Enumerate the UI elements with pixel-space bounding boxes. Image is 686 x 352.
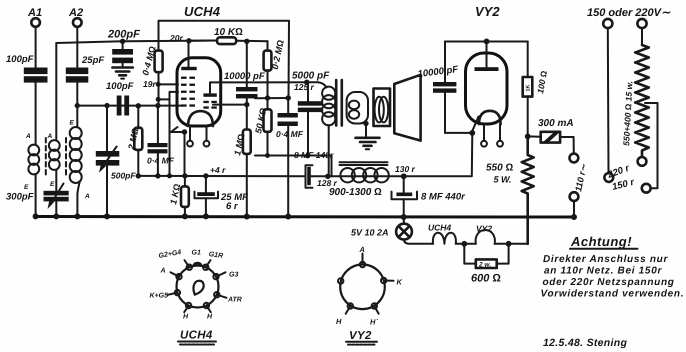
wire grid line y105 xyxy=(77,105,183,107)
wire stub to tube g2 xyxy=(158,83,178,85)
capacitor 8MF 440V electrolytic xyxy=(392,176,467,216)
heater UCH4 xyxy=(428,223,456,244)
socket VY2 circle xyxy=(340,265,385,310)
wire y176 choke to VY2 cathode riser xyxy=(328,133,473,176)
node grid stub 2 xyxy=(156,97,161,102)
wire A2 vertical xyxy=(76,27,78,68)
svg-text:20r: 20r xyxy=(169,33,183,43)
svg-text:A2: A2 xyxy=(68,7,83,19)
ground bus xyxy=(36,215,574,219)
tube UCH4 triode anode xyxy=(203,82,216,96)
svg-text:5000 pF: 5000 pF xyxy=(292,71,330,82)
node 100pF right / 2Mohm top xyxy=(136,103,141,108)
svg-text:A: A xyxy=(160,268,166,275)
capacitor 5000pF xyxy=(292,71,330,159)
resistor 50kohm xyxy=(253,98,271,134)
terminal A1 xyxy=(27,7,42,27)
svg-text:oder 220r Netzspannung: oder 220r Netzspannung xyxy=(543,277,675,288)
node 2Mohm bottom xyxy=(136,173,141,178)
svg-text:150 oder 220V∼: 150 oder 220V∼ xyxy=(587,7,671,19)
node k on AVC line xyxy=(182,173,187,178)
node 600ohm right xyxy=(506,241,512,247)
mains terminal left xyxy=(603,19,613,182)
tube VY2 heater pins xyxy=(481,124,503,147)
node VY2 cathode xyxy=(469,130,475,136)
speaker coil secondary xyxy=(347,92,368,124)
wire coil L2 to variable cap xyxy=(55,170,57,191)
tap wire 150V xyxy=(645,103,658,188)
node grid stub 1 xyxy=(156,82,161,87)
svg-text:+4 r: +4 r xyxy=(210,165,226,175)
node cathode k xyxy=(182,129,187,134)
tube VY2 cathode lead xyxy=(472,117,478,132)
tube UCH4 envelope xyxy=(177,58,221,126)
svg-text:K: K xyxy=(397,278,403,287)
node 20V xyxy=(186,38,191,43)
label socket VY2 xyxy=(346,330,377,345)
svg-text:A: A xyxy=(84,193,90,200)
svg-text:E: E xyxy=(50,181,55,188)
wire coil L3 to bus xyxy=(77,181,80,217)
variable capacitor 300pF xyxy=(6,184,69,210)
resistor 1Mohm xyxy=(232,105,251,157)
svg-text:10000 pF: 10000 pF xyxy=(224,71,265,82)
svg-text:100pF: 100pF xyxy=(106,81,134,92)
wire y98 xyxy=(255,97,289,99)
svg-text:Achtung!: Achtung! xyxy=(570,234,632,249)
svg-text:1K: 1K xyxy=(526,84,532,91)
tap terminal 150V xyxy=(611,177,651,193)
wire stub y99 xyxy=(158,98,169,100)
coil L2 xyxy=(47,133,60,188)
svg-text:A: A xyxy=(25,133,31,140)
wire 1Mohm to bus xyxy=(246,154,248,217)
wire 500pF to bus xyxy=(106,166,108,217)
wire top-left horizontal (y41) xyxy=(56,41,217,44)
transformer core xyxy=(336,80,342,126)
wire VY2 anode rail y41 xyxy=(445,41,528,43)
wire AVC/B+ line y176 xyxy=(138,175,305,177)
label socket UCH4 xyxy=(178,330,216,345)
svg-text:A: A xyxy=(47,133,53,140)
svg-text:A: A xyxy=(359,245,365,254)
capacitor 0.4MF cathode xyxy=(147,106,175,176)
tube VY2 anode xyxy=(475,42,499,72)
node 50k on y155 xyxy=(265,153,270,158)
capacitor 100pF (A1) xyxy=(6,54,48,83)
wire A2 to node xyxy=(76,83,78,106)
wire k-node down xyxy=(184,132,186,176)
node 50k top xyxy=(265,95,270,100)
node transformer primary bottom xyxy=(325,174,330,179)
svg-text:550 Ω: 550 Ω xyxy=(486,163,513,174)
resistor 600ohm 2W xyxy=(464,244,508,285)
wire A2 node to coil L3 xyxy=(76,106,78,127)
svg-text:G3: G3 xyxy=(229,272,238,279)
wire from y41 corner down to coil L2 xyxy=(55,43,57,139)
svg-text:5V 10 2A: 5V 10 2A xyxy=(351,228,389,238)
svg-text:300pF: 300pF xyxy=(6,192,34,203)
wire 0.2Mohm to node y98 xyxy=(267,71,269,98)
capacitor 200pF xyxy=(107,29,140,64)
svg-text:A1: A1 xyxy=(27,7,42,19)
wire 0.4Mohm bottom to grid line xyxy=(158,72,160,105)
wire 2Mohm to AVC line xyxy=(137,150,139,176)
resistor 550ohm 5W xyxy=(486,136,534,243)
svg-text:UCH4: UCH4 xyxy=(184,4,221,19)
svg-text:900-1300 Ω: 900-1300 Ω xyxy=(329,187,382,198)
capacitor 25MF electrolytic xyxy=(195,173,249,216)
capacitor 100pF series xyxy=(106,81,134,116)
wire g3 return L xyxy=(170,92,179,176)
svg-text:600 Ω: 600 Ω xyxy=(471,273,501,285)
wire A1 to coil xyxy=(35,83,37,145)
transformer primary coil xyxy=(318,82,335,176)
tap terminal 220V xyxy=(605,157,646,181)
socket VY2 pin labels xyxy=(336,245,403,327)
resistor 10kohm xyxy=(189,27,268,44)
heater wire to node xyxy=(456,243,476,245)
node choke right xyxy=(401,173,407,179)
mains terminal right xyxy=(637,19,646,45)
svg-text:25pF: 25pF xyxy=(81,55,104,66)
ground under 200pF xyxy=(112,63,132,78)
heater wire lamp to UCH4 xyxy=(404,240,433,244)
node triode grid xyxy=(244,102,249,107)
svg-text:130 r: 130 r xyxy=(395,164,416,174)
fuse 300mA xyxy=(528,118,574,143)
resistor 0.4Mohm xyxy=(140,45,162,77)
capacitor 10000pF (VY2) xyxy=(417,42,472,133)
wire triode grid y104.6 xyxy=(213,104,247,106)
socket UCH4 pins xyxy=(168,260,227,312)
node g3 return bottom xyxy=(167,173,172,178)
wire y155 xyxy=(255,156,332,177)
resistor 0.2Mohm xyxy=(264,39,286,71)
wire triode anode out (y82) xyxy=(210,81,318,83)
plug terminal 110V upper xyxy=(570,137,579,162)
svg-text:G1: G1 xyxy=(192,250,201,257)
tube VY2 envelope xyxy=(466,53,508,124)
svg-text:2 w.: 2 w. xyxy=(478,262,491,269)
field choke coil xyxy=(329,162,389,198)
svg-text:VY2: VY2 xyxy=(349,330,372,342)
wire coil L1 to bus xyxy=(35,174,37,217)
wire 500pF vertical xyxy=(106,106,108,151)
capacitor 8MF 140V electrolytic xyxy=(294,150,334,188)
heater wire VY2 to corner xyxy=(495,243,528,245)
core dashed line 2 xyxy=(65,138,67,178)
speaker cone xyxy=(394,75,420,141)
svg-text:125 r: 125 r xyxy=(294,82,315,92)
svg-text:0·4 MF: 0·4 MF xyxy=(147,156,175,166)
svg-text:an 110r Netz. Bei 150r: an 110r Netz. Bei 150r xyxy=(544,266,662,277)
plug terminal 110V lower xyxy=(570,192,579,217)
resistor 550+400ohm dropper xyxy=(621,45,649,157)
tube UCH4 heater pins xyxy=(187,126,209,147)
svg-text:H`: H` xyxy=(370,318,378,327)
node 600ohm left xyxy=(461,241,467,247)
wire 300pF to bus xyxy=(55,202,57,217)
top rail xyxy=(159,21,290,98)
core dashed line 1 xyxy=(45,138,47,178)
node 0.4MF top xyxy=(286,95,291,100)
tube UCH4 triode grid dashes xyxy=(203,101,216,109)
terminal A2 xyxy=(68,7,83,27)
coil L1 antenna xyxy=(24,133,39,191)
wire 0.4MF to bus xyxy=(287,126,289,217)
node fuse junction xyxy=(525,134,531,140)
node 500pF top xyxy=(104,103,109,108)
capacitor 0.4MF screen xyxy=(276,98,304,139)
svg-text:Vorwiderstand verwenden.: Vorwiderstand verwenden. xyxy=(541,289,685,300)
socket UCH4 pin labels xyxy=(150,249,242,320)
ground symbol speaker xyxy=(356,124,380,150)
svg-text:5 W.: 5 W. xyxy=(494,175,512,185)
resistor 100ohm boxed xyxy=(523,42,549,97)
svg-text:300 mA: 300 mA xyxy=(538,118,574,129)
wire A1 vertical xyxy=(35,27,37,68)
tube UCH4 grid dashes xyxy=(181,77,195,107)
heater VY2 xyxy=(476,224,495,244)
pilot lamp 5V 0.2A xyxy=(351,217,412,240)
svg-text:100pF: 100pF xyxy=(6,54,34,65)
wire cathode to k-node xyxy=(171,127,185,132)
svg-text:0·4 MF: 0·4 MF xyxy=(276,129,304,139)
resistor 2Mohm xyxy=(126,106,142,152)
socket UCH4 circle xyxy=(177,263,219,307)
label Achtung heading xyxy=(570,234,638,249)
capacitor 25pF (A2) xyxy=(66,55,105,83)
variable capacitor 500pF xyxy=(96,147,137,181)
svg-text:UCH4: UCH4 xyxy=(428,223,451,233)
tube UCH4 hexode anode xyxy=(181,41,196,70)
coil L3 (E) xyxy=(70,120,91,201)
speaker driver frame xyxy=(374,89,391,127)
svg-text:ATR: ATR xyxy=(227,297,242,304)
svg-text:Direkter Anschluss nur: Direkter Anschluss nur xyxy=(543,254,668,265)
socket UCH4 key xyxy=(193,281,203,295)
tube VY2 cathode dome xyxy=(479,111,501,124)
node 10000pF top xyxy=(244,39,249,44)
svg-text:E: E xyxy=(24,184,29,191)
node speaker ground xyxy=(363,121,368,126)
node VY2 anode xyxy=(484,39,490,45)
capacitor 10000pF xyxy=(224,41,265,104)
svg-text:19r: 19r xyxy=(143,79,156,89)
node 0.4MF cathode bottom xyxy=(155,173,160,178)
wire 100ohm to fuse node xyxy=(527,97,529,137)
svg-text:8 MF 440r: 8 MF 440r xyxy=(421,192,466,203)
node 0.4Mohm grid line xyxy=(155,103,160,108)
svg-text:VY2: VY2 xyxy=(475,4,500,19)
note text block xyxy=(541,254,685,300)
svg-text:E: E xyxy=(70,120,75,127)
resistor 1kohm xyxy=(168,176,189,217)
svg-text:H: H xyxy=(336,317,342,326)
svg-text:200pF: 200pF xyxy=(107,29,140,41)
tube UCH4 cathode dome xyxy=(188,111,213,126)
socket VY2 pins xyxy=(338,254,394,314)
svg-text:500pF: 500pF xyxy=(111,171,136,181)
svg-text:UCH4: UCH4 xyxy=(180,330,213,342)
bus node dots xyxy=(33,213,577,220)
svg-text:6 r: 6 r xyxy=(226,201,239,212)
svg-text:12.5.48. Stening: 12.5.48. Stening xyxy=(543,337,627,349)
wire 50k bottom xyxy=(267,132,269,156)
svg-text:K+G5: K+G5 xyxy=(150,293,169,300)
node A2-grid junction xyxy=(75,103,80,108)
